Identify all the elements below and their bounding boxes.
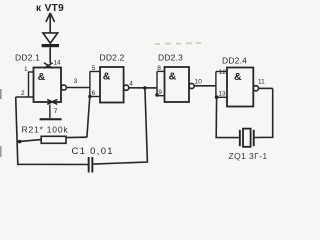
- scan artifact left edge ticks: [0, 89, 2, 99]
- svg-text:4: 4: [129, 81, 133, 88]
- svg-text:8: 8: [157, 65, 161, 72]
- svg-text:DD2.4: DD2.4: [222, 56, 247, 66]
- svg-text:к VT9: к VT9: [36, 3, 64, 14]
- svg-text:DD2.2: DD2.2: [100, 53, 125, 63]
- faint bleed-through row: [155, 42, 201, 45]
- svg-text:&: &: [234, 71, 242, 83]
- junction pin 9 node: [155, 93, 158, 96]
- junction C1 node: [143, 86, 147, 90]
- gate DD2.2 body: [100, 67, 124, 103]
- junction crystal node: [215, 95, 219, 99]
- junction at left rail: [18, 140, 22, 144]
- junction pin 6 node: [88, 95, 91, 98]
- svg-text:10: 10: [195, 79, 203, 86]
- crystal ZQ1 right plate: [253, 130, 255, 146]
- wire to VT9 with up arrowhead: [46, 13, 55, 33]
- DD2.1 input tie bar: [28, 71, 30, 97]
- wire DD2.1 output to DD2.2 input: [67, 87, 90, 89]
- DD2.2 input tie bar: [89, 72, 91, 97]
- DD2.4 input tie bar: [215, 72, 217, 98]
- pin 13 stub: [216, 96, 227, 98]
- svg-text:R21* 100k: R21* 100k: [22, 125, 69, 135]
- svg-text:9: 9: [158, 89, 162, 96]
- pin 9 stub: [157, 95, 165, 97]
- svg-text:14: 14: [53, 60, 61, 67]
- gate DD2.4 body: [227, 68, 253, 107]
- capacitor C1 right plate: [91, 157, 93, 173]
- svg-text:5: 5: [92, 65, 96, 72]
- output pin diode mark at DD2.1 bottom: [47, 99, 57, 104]
- wire DD2.4 input node down to crystal: [216, 97, 239, 137]
- svg-text:2: 2: [21, 90, 25, 97]
- pin 6 stub: [90, 96, 100, 98]
- svg-text:3: 3: [74, 78, 78, 85]
- pin 2 stub wire to left rail: [16, 96, 34, 98]
- bottom rail right segment up to DD2.2 output node: [93, 88, 147, 164]
- wire crystal to DD2.4 output: [255, 88, 273, 137]
- svg-text:7: 7: [54, 108, 58, 115]
- input protection diode mark at pin 14: [44, 63, 53, 68]
- svg-text:13: 13: [218, 91, 226, 98]
- crystal ZQ1 left plate: [239, 130, 241, 146]
- resistor R21 left wire with junction: [17, 140, 41, 142]
- DD2.3 input tie bar: [156, 71, 158, 95]
- svg-text:&: &: [169, 71, 177, 83]
- svg-text:ZQ1 3Г-1: ZQ1 3Г-1: [229, 151, 268, 161]
- svg-text:6: 6: [92, 90, 96, 97]
- crystal ZQ1 body: [243, 129, 251, 147]
- svg-text:&: &: [103, 71, 111, 83]
- pin 12 stub: [216, 71, 227, 73]
- diode VD1 cathode bar: [42, 44, 59, 47]
- gate DD2.1 body: [34, 68, 62, 103]
- svg-text:11: 11: [258, 79, 265, 86]
- diode VD1 triangle (anode up): [43, 33, 58, 43]
- svg-text:12: 12: [219, 69, 227, 76]
- pin 1 stub: [29, 71, 34, 73]
- svg-text:DD2.3: DD2.3: [158, 53, 183, 63]
- ground symbol: [40, 118, 62, 120]
- gate DD2.3 body: [165, 67, 190, 102]
- svg-text:&: &: [38, 71, 46, 83]
- feedback drop wire R21 to DD2.2 input node: [87, 97, 90, 138]
- svg-text:DD2.1: DD2.1: [15, 53, 40, 63]
- bottom rail left segment: [16, 97, 88, 165]
- resistor R21 right wire: [66, 136, 87, 138]
- wire DD2.3 output to DD2.4 input: [194, 85, 216, 87]
- DD2.2 output inversion circle: [124, 85, 129, 90]
- wire DD2.4 output: [259, 87, 273, 89]
- DD2.3 output inversion circle: [189, 83, 194, 88]
- pin 7 ground stub: [49, 105, 51, 119]
- DD2.4 output inversion circle: [253, 86, 258, 91]
- svg-text:C1 0,01: C1 0,01: [72, 146, 114, 157]
- pin 5 stub: [90, 71, 100, 73]
- resistor R21 body: [41, 136, 66, 143]
- pin 8 stub: [157, 70, 165, 72]
- wire diode to pin 14: [49, 47, 51, 63]
- wire DD2.2 output to DD2.3 input: [129, 87, 157, 89]
- capacitor C1 left plate: [88, 157, 90, 173]
- svg-text:1: 1: [24, 66, 28, 73]
- DD2.1 output inversion circle: [61, 85, 66, 90]
